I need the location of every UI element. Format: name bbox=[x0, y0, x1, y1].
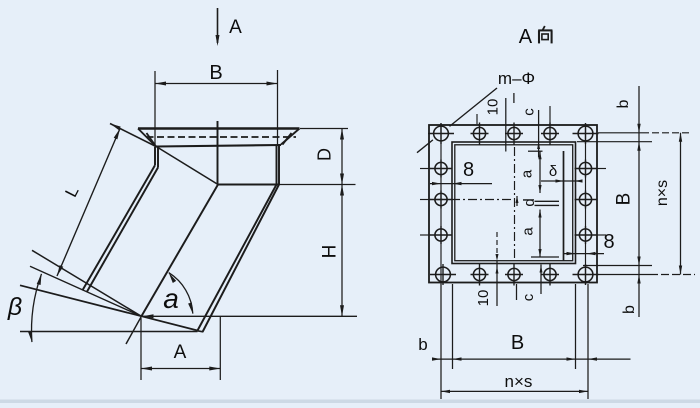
svg-text:c: c bbox=[520, 108, 537, 116]
svg-text:a: a bbox=[518, 169, 535, 178]
svg-text:b: b bbox=[615, 99, 632, 108]
svg-text:m–Φ: m–Φ bbox=[498, 69, 535, 88]
svg-text:H: H bbox=[319, 245, 340, 259]
svg-text:δ: δ bbox=[549, 163, 557, 180]
svg-text:b: b bbox=[418, 335, 427, 354]
svg-text:n×s: n×s bbox=[505, 372, 533, 391]
svg-text:8: 8 bbox=[463, 159, 474, 181]
svg-text:n×s: n×s bbox=[654, 180, 671, 206]
svg-text:a: a bbox=[163, 283, 179, 314]
svg-text:8: 8 bbox=[603, 231, 614, 253]
svg-text:10: 10 bbox=[484, 99, 501, 116]
svg-text:B: B bbox=[613, 193, 634, 206]
svg-text:β: β bbox=[7, 293, 22, 321]
svg-text:10: 10 bbox=[475, 290, 492, 307]
svg-text:B: B bbox=[511, 332, 524, 354]
svg-text:A: A bbox=[174, 342, 187, 363]
svg-text:b: b bbox=[621, 305, 638, 314]
svg-text:D: D bbox=[315, 148, 335, 161]
svg-text:a: a bbox=[519, 227, 536, 236]
svg-text:c: c bbox=[520, 293, 537, 301]
svg-text:B: B bbox=[209, 62, 222, 84]
svg-text:A: A bbox=[229, 17, 242, 38]
svg-text:d: d bbox=[521, 198, 538, 206]
svg-text:A: A bbox=[519, 26, 533, 48]
